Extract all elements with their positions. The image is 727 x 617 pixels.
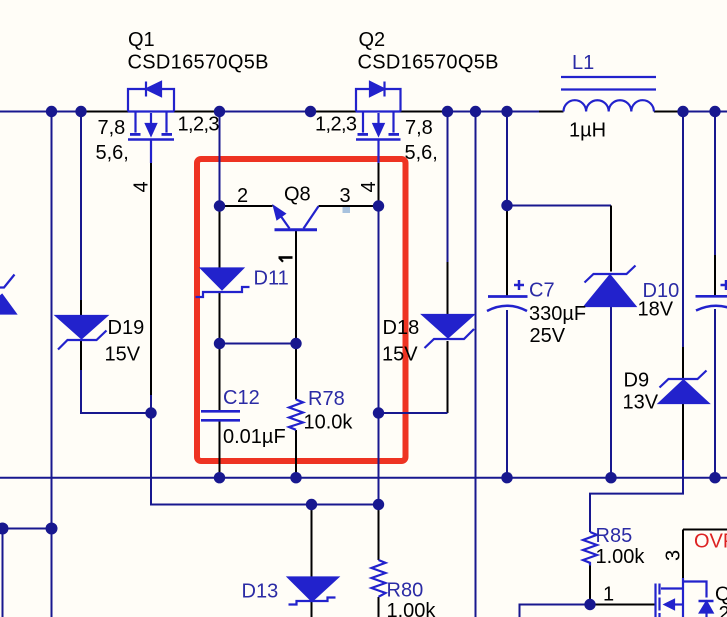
wire D19 bottom corner to gate column [81, 370, 151, 413]
wire top rail right end [683, 111, 727, 113]
svg-text:1,2,3: 1,2,3 [315, 114, 357, 136]
svg-text:25V: 25V [530, 325, 566, 347]
wire R80 top lead [378, 505, 380, 561]
node gate bus R80 [373, 499, 384, 510]
svg-text:R80: R80 [387, 580, 424, 602]
svg-text:10.0k: 10.0k [304, 412, 354, 434]
zener left edge partial [0, 275, 16, 314]
svg-text:D9: D9 [624, 370, 650, 392]
zener D13 [289, 578, 338, 605]
svg-text:13V: 13V [623, 392, 659, 414]
node rail E [442, 106, 453, 117]
wire gate node left branch [520, 605, 591, 617]
node gate bus D13 [306, 499, 317, 510]
svg-text:Q2: Q2 [359, 29, 386, 51]
svg-text:Q1: Q1 [128, 29, 155, 51]
wire D9 column to R85 jog [590, 460, 683, 532]
mosfet Q2 [356, 82, 401, 164]
pin marker square node 3 [343, 207, 351, 213]
wire left column A x=51 [51, 112, 53, 617]
label Q8 pin 1 [279, 258, 293, 262]
capacitor C12 [201, 411, 240, 420]
wire D9 column from rail [682, 112, 684, 348]
node ground right cap [709, 472, 720, 483]
wire top rail node to node [220, 111, 311, 113]
svg-text:2: 2 [719, 603, 727, 617]
node R85 gate [584, 599, 595, 610]
svg-text:C12: C12 [223, 387, 260, 409]
wire D9 cathode down [682, 403, 684, 460]
wire R85 bottom lead [589, 566, 591, 605]
svg-text:OVP: OVP [694, 531, 727, 553]
svg-text:Q8: Q8 [284, 184, 311, 206]
svg-text:CSD16570Q5B: CSD16570Q5B [358, 52, 499, 74]
svg-text:2: 2 [237, 185, 248, 207]
node rail D [305, 106, 316, 117]
wire left column B x=81 upper [80, 112, 82, 301]
svg-text:R78: R78 [308, 388, 345, 410]
wire C7 node branch to D10 [507, 205, 611, 207]
wire middle column x=475 [475, 112, 477, 617]
node ground D10 [605, 472, 616, 483]
resistor R80 [372, 560, 386, 597]
wire D13 top lead [311, 505, 313, 578]
wire top rail to Q2 [311, 111, 357, 113]
wire mid node row [220, 343, 297, 345]
inductor L1 [561, 77, 656, 112]
wire D10 cathode down [610, 306, 612, 479]
node rail F [470, 106, 481, 117]
wire L1 out [654, 111, 683, 113]
zener D18 [423, 315, 474, 348]
node jog left [0, 523, 9, 535]
node jog right [46, 523, 58, 535]
capacitor right edge [696, 280, 727, 311]
resistor R78 [289, 400, 303, 430]
wire C12 bottom lead [219, 422, 221, 479]
svg-text:R85: R85 [596, 525, 633, 547]
node ground C7 [501, 472, 512, 483]
wire stub into L1 [539, 111, 564, 113]
wire top rail to Q1 source [81, 111, 128, 113]
svg-text:7,8: 7,8 [98, 117, 126, 139]
svg-text:18V: 18V [638, 299, 674, 321]
wire Q8 base pin 1 [295, 231, 297, 344]
wire R78 bottom lead [295, 430, 297, 479]
wire bottom-left jog [3, 528, 52, 530]
svg-text:L1: L1 [572, 52, 594, 74]
wire OVP branch [683, 529, 727, 531]
svg-text:15V: 15V [105, 344, 141, 366]
svg-text:4: 4 [131, 181, 153, 192]
wire C7 top lead [506, 206, 508, 297]
svg-text:D18: D18 [383, 317, 420, 339]
node rail A [46, 106, 57, 117]
wire ground bus [0, 477, 727, 479]
wire gate bus corner to bottom bus [151, 395, 379, 505]
wire top rail nodes to L1 [448, 111, 540, 113]
node D19 bottom gate junction [145, 407, 156, 418]
svg-text:D19: D19 [108, 317, 145, 339]
wire C7 bottom lead [506, 310, 508, 479]
transistor Q8 [274, 206, 319, 230]
wire node3 column down [378, 206, 380, 505]
node rail C [214, 106, 225, 117]
node rail I [709, 106, 720, 117]
wire right cap column from rail [714, 112, 716, 256]
wire D19 cathode stub [80, 340, 82, 370]
wire C12 top lead [219, 344, 221, 411]
wire gate node to Q gate [590, 604, 655, 606]
svg-text:D13: D13 [242, 581, 279, 603]
wire top rail Q1 drain to node [174, 111, 220, 113]
wire right cap bottom lead [714, 309, 716, 479]
wire R80 bottom lead [378, 597, 380, 617]
wire Q1 gate net [150, 163, 152, 395]
svg-text:1,2,3: 1,2,3 [178, 114, 220, 136]
svg-text:3: 3 [340, 185, 351, 207]
node 3 [373, 200, 384, 211]
wire Q8 emitter to node 2 [220, 205, 273, 207]
wire Q8 collector to node 3 [319, 205, 379, 207]
zener D10 [585, 266, 636, 307]
wire right cap top lead [714, 255, 716, 296]
node 2 [214, 200, 225, 211]
svg-text:C7: C7 [529, 280, 555, 302]
wire bottom-left column x=4 [2, 529, 4, 617]
svg-text:1µH: 1µH [569, 120, 606, 142]
highlight red box [197, 159, 406, 461]
svg-text:5,6,: 5,6, [96, 142, 129, 164]
wire D18 column from rail [447, 112, 449, 263]
wire D10 anode stub [610, 206, 612, 272]
zener D19 [57, 316, 107, 350]
mosfet Q1 [128, 82, 174, 164]
wire D19 anode stub [80, 300, 82, 316]
svg-text:CSD16570Q5B: CSD16570Q5B [128, 52, 269, 74]
wire top rail Q2 to node [401, 111, 448, 113]
svg-text:0.01µF: 0.01µF [223, 426, 286, 448]
svg-text:1: 1 [603, 584, 614, 606]
wire D18 bottom to column node [379, 412, 448, 414]
wire OVP vertical [682, 530, 684, 579]
svg-text:330µF: 330µF [529, 303, 586, 325]
wire Q2 gate stub down to node 3 [378, 163, 380, 206]
node D18 bottom [373, 407, 384, 418]
wire D13 bottom lead [311, 601, 313, 617]
node rail G [501, 106, 512, 117]
resistor R85 [583, 532, 597, 566]
wire R78 top lead [295, 344, 297, 400]
diode D11 [196, 269, 250, 298]
svg-text:5,6,: 5,6, [405, 142, 438, 164]
svg-text:4: 4 [358, 181, 380, 192]
node mid row right [290, 338, 301, 349]
node mid row left [214, 338, 225, 349]
svg-text:D11: D11 [254, 268, 289, 290]
wire D11 cathode down [219, 293, 221, 344]
svg-text:15V: 15V [382, 344, 418, 366]
node rail H [677, 106, 688, 117]
wire top rail left segment [0, 111, 81, 113]
node C7 branch [501, 200, 512, 211]
node ground R78 [290, 472, 301, 483]
svg-text:1.00k: 1.00k [387, 600, 437, 617]
capacitor C7 [487, 280, 528, 311]
zener D9 [660, 371, 709, 404]
svg-text:7,8: 7,8 [405, 117, 433, 139]
wire node2 column from rail [219, 112, 221, 207]
wire D18 anode stub [447, 262, 449, 315]
wire D18 cathode down [447, 341, 449, 413]
svg-text:3: 3 [663, 550, 685, 561]
wire C7 column from rail [506, 112, 508, 206]
node ground C12 [214, 472, 225, 483]
wire D9 anode stub [682, 347, 684, 378]
wire node2 to D11 anode [219, 206, 221, 269]
node rail B [75, 106, 86, 117]
mosfet Q bottom right [656, 578, 714, 617]
svg-text:1.00k: 1.00k [596, 546, 646, 568]
